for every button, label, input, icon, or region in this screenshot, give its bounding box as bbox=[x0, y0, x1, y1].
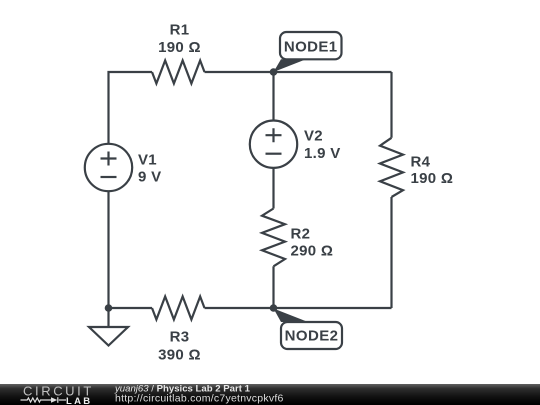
wire V1 bottom lead bbox=[107, 191, 109, 308]
NODE2 callout pointer bbox=[274, 309, 309, 323]
resistor R3 bbox=[152, 297, 205, 320]
svg-text:NODE2: NODE2 bbox=[285, 328, 339, 345]
voltage source V1 circle bbox=[85, 144, 132, 191]
V1 plus sign bbox=[101, 152, 117, 166]
svg-text:9 V: 9 V bbox=[138, 169, 161, 186]
wire bottom horizontal to right bbox=[205, 307, 392, 309]
svg-text:R2: R2 bbox=[291, 226, 311, 243]
wire top horizontal to right corner bbox=[205, 71, 392, 73]
wire bottom-left segment bbox=[109, 307, 153, 309]
svg-text:390 Ω: 390 Ω bbox=[158, 347, 201, 364]
svg-text:V2: V2 bbox=[304, 128, 323, 145]
resistor R1 bbox=[152, 61, 205, 84]
footer watermark bar bbox=[0, 384, 540, 405]
svg-text:LAB: LAB bbox=[66, 396, 92, 405]
node dot NODE1 bbox=[270, 68, 278, 76]
ground stub bbox=[107, 308, 109, 327]
logo diode cathode line bbox=[59, 399, 66, 401]
NODE1 callout pointer bbox=[274, 59, 307, 72]
node dot ground junction bbox=[105, 304, 113, 312]
NODE1 callout box bbox=[280, 32, 342, 59]
wire V2 bottom lead bbox=[272, 168, 274, 209]
logo diode triangle bbox=[51, 397, 57, 403]
NODE2 callout box bbox=[281, 322, 342, 349]
wire right vertical lower bbox=[390, 197, 392, 308]
V2 minus sign bbox=[266, 153, 282, 155]
svg-text:1.9 V: 1.9 V bbox=[304, 145, 341, 162]
resistor R4 bbox=[380, 138, 403, 197]
svg-text:http://circuitlab.com/c7yetnvc: http://circuitlab.com/c7yetnvcpkvf6 bbox=[115, 392, 284, 404]
V2 plus sign bbox=[266, 128, 282, 142]
wire R2 to bottom bbox=[272, 266, 274, 308]
CircuitLab logo circuit glyph: wire lead bbox=[21, 397, 67, 403]
V1 minus sign bbox=[101, 176, 117, 178]
svg-text:R1: R1 bbox=[170, 22, 190, 39]
svg-text:V1: V1 bbox=[138, 152, 157, 169]
wire right vertical upper bbox=[390, 72, 392, 138]
wire top-left horizontal segment bbox=[109, 72, 153, 144]
node dot NODE2 bbox=[270, 304, 278, 312]
ground triangle bbox=[89, 327, 128, 346]
voltage source V2 circle bbox=[250, 121, 297, 168]
svg-text:NODE1: NODE1 bbox=[284, 39, 338, 56]
svg-text:190 Ω: 190 Ω bbox=[411, 170, 454, 187]
svg-text:190 Ω: 190 Ω bbox=[158, 39, 201, 56]
wire V2 top lead bbox=[272, 72, 274, 121]
svg-text:290 Ω: 290 Ω bbox=[291, 243, 334, 260]
resistor R2 bbox=[262, 209, 285, 267]
svg-text:R4: R4 bbox=[411, 154, 431, 171]
logo diode bar bbox=[57, 397, 59, 403]
svg-text:R3: R3 bbox=[170, 329, 190, 346]
